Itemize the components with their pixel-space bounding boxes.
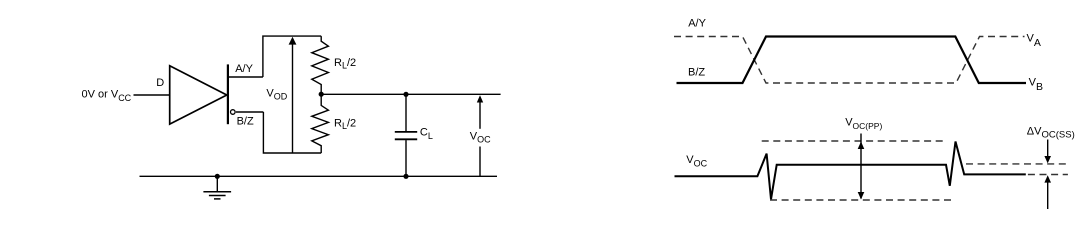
svg-text:VOC(PP): VOC(PP) — [845, 117, 882, 131]
arrow up to steady-state lower level — [1044, 175, 1051, 209]
label VOC circuit — [470, 130, 491, 144]
svg-text:RL/2: RL/2 — [334, 57, 356, 71]
svg-text:B/Z: B/Z — [688, 66, 705, 78]
svg-text:A/Y: A/Y — [235, 63, 253, 75]
label VOC waveform — [686, 154, 707, 168]
capacitor CL top junction dot — [403, 92, 408, 97]
capacitor CL plates — [395, 131, 417, 133]
label VB — [1029, 77, 1043, 94]
capacitor CL bottom lead — [405, 140, 407, 176]
wire B/Z — [236, 111, 264, 113]
dashed VOC trough level — [770, 199, 955, 201]
svg-text:D: D — [156, 77, 164, 89]
driver output bar — [227, 64, 229, 124]
ground junction dot — [215, 174, 220, 179]
waveform A/Y dashed — [674, 37, 1025, 84]
label A/Y — [235, 63, 253, 75]
label B/Z waveform — [688, 66, 705, 78]
capacitor CL bottom junction dot — [403, 174, 408, 179]
arrow down to steady-state upper level — [1044, 140, 1051, 164]
label VA — [1027, 33, 1041, 50]
wire A/Y — [229, 76, 263, 78]
label RL/2 bottom — [334, 118, 356, 132]
wire output node to right — [321, 93, 500, 95]
dashed VOC peak level — [762, 140, 947, 142]
source label 0V or VCC — [82, 89, 132, 103]
svg-text:0V or VCC: 0V or VCC — [82, 89, 132, 103]
dashed steady-state lower level — [1028, 174, 1068, 176]
VOC(PP) measurement arrow — [858, 134, 865, 200]
label RL/2 top — [334, 57, 356, 71]
label VOD — [266, 87, 287, 101]
label D — [156, 77, 164, 89]
svg-text:RL/2: RL/2 — [334, 118, 356, 132]
wire B/Z to resistor bottom — [263, 112, 321, 153]
resistor R1 RL/2 top — [312, 36, 329, 92]
bubble on B/Z output — [231, 110, 236, 115]
node dot driver load midpoint — [319, 92, 324, 97]
svg-text:VOC: VOC — [470, 130, 491, 144]
ground — [203, 176, 231, 199]
wire ground rail — [140, 175, 498, 177]
svg-text:B/Z: B/Z — [237, 115, 254, 127]
svg-text:VOD: VOD — [266, 87, 287, 101]
svg-text:VB: VB — [1029, 77, 1043, 94]
waveform VOC solid — [675, 142, 1026, 200]
svg-text:VA: VA — [1027, 33, 1041, 50]
svg-text:CL: CL — [420, 127, 433, 141]
svg-text:ΔVOC(SS): ΔVOC(SS) — [1027, 125, 1075, 140]
wire input D — [134, 94, 170, 96]
driver U1 — [170, 66, 227, 124]
label B/Z — [237, 115, 254, 127]
label VOC(PP) — [845, 117, 882, 131]
label A/Y waveform — [688, 17, 706, 29]
resistor R2 RL/2 bottom — [312, 97, 329, 154]
VOC measurement arrow — [479, 101, 481, 129]
dashed steady-state upper level — [966, 163, 1068, 165]
VOD arrow — [292, 43, 294, 153]
waveform B/Z solid — [677, 37, 1027, 84]
label delta VOC(SS) — [1027, 125, 1075, 140]
label CL — [420, 127, 433, 141]
svg-text:A/Y: A/Y — [688, 17, 706, 29]
capacitor CL top lead — [405, 94, 407, 131]
wire A/Y to resistor top — [263, 36, 321, 77]
svg-text:VOC: VOC — [686, 154, 707, 168]
